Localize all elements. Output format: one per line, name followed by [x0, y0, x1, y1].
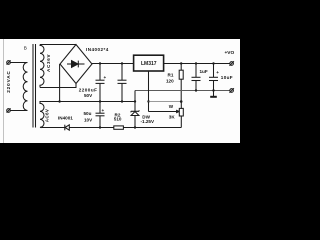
node: 0.1uF tap on + rail [121, 62, 123, 64]
black letterbox background [0, 0, 240, 180]
transformer secondary winding AC6V [40, 102, 44, 128]
terminal VO+ [230, 61, 234, 66]
wire: ADJ to R1 bottom [149, 101, 182, 103]
svg-text:IN4001: IN4001 [58, 115, 73, 120]
node: bridge minus on ground rail [58, 100, 60, 102]
svg-text:R1: R1 [168, 73, 174, 78]
svg-text:+: + [104, 75, 107, 80]
bridge rectifier diamond [60, 45, 92, 84]
node: caps junction on ground rail [99, 100, 101, 102]
wire: top terminal to primary [10, 62, 27, 64]
svg-text:1uF: 1uF [200, 69, 208, 74]
svg-text:AC6V: AC6V [45, 109, 50, 122]
transformer core [32, 44, 34, 128]
return rail (gnd) to VO- terminal [135, 90, 230, 92]
input terminal top (220VAC) [7, 60, 11, 64]
svg-text:+VO: +VO [225, 50, 235, 56]
node: ADJ branch [147, 100, 149, 102]
node: R1 tap [180, 62, 182, 64]
svg-text:AC36V: AC36V [46, 54, 51, 72]
wire: bridge minus (left corner) down to ground rail [59, 64, 61, 102]
svg-text:10V: 10V [84, 117, 93, 122]
ground symbol under 10uF [210, 91, 217, 97]
zener diode DW [131, 102, 139, 128]
diode D1 IN4001 [65, 125, 70, 131]
capacitor 10uF leads [213, 64, 215, 78]
resistor R1 body [179, 70, 183, 79]
terminal VO- [230, 88, 234, 93]
wire: ADJ wiper to pot [149, 110, 180, 112]
wire: bridge plus (right corner) to LM317 input [92, 63, 134, 65]
svg-text:10uF: 10uF [221, 75, 233, 80]
resistor R1 leads [180, 64, 182, 71]
transformer secondary winding AC36V [40, 45, 44, 88]
svg-text:510: 510 [114, 117, 122, 122]
LM317 ADJ pin wire down [148, 71, 150, 111]
capacitor 0.1uF leads [121, 64, 123, 81]
svg-text:W: W [169, 104, 174, 109]
bridge inner diode [67, 61, 85, 68]
svg-text:IN4002*4: IN4002*4 [86, 47, 109, 52]
labels [6, 45, 235, 124]
pot leads [180, 102, 182, 109]
capacitor 10uF plates [209, 76, 218, 78]
node: zener branch on ground rail [134, 100, 136, 102]
svg-text:+: + [102, 108, 105, 113]
capacitor 0.1uF plates [118, 79, 127, 81]
svg-text:+: + [216, 70, 219, 75]
capacitor 2200uF plates [96, 79, 105, 81]
svg-text:220VAC: 220VAC [6, 70, 11, 92]
svg-text:50V: 50V [84, 93, 93, 98]
resistor R2 body [114, 126, 124, 129]
svg-text:120: 120 [166, 79, 174, 84]
ground rail left [41, 101, 135, 103]
node: 1uF bottom on return rail [195, 89, 197, 91]
capacitor 50uF plates [96, 112, 105, 114]
transformer T1 primary winding [23, 63, 27, 111]
node: 1uF tap [195, 62, 197, 64]
capacitor 1uF plates [192, 76, 201, 78]
node: 50uF bottom on negative wire [99, 126, 101, 128]
white schematic area [0, 39, 240, 143]
regulator U1 LM317 box [134, 55, 164, 71]
svg-text:-1.25V: -1.25V [141, 119, 155, 124]
potentiometer W body [179, 108, 183, 116]
capacitor 1uF leads [195, 64, 197, 78]
wire: zener vertical up to return rail [134, 91, 136, 102]
node: 10uF bottom on return rail [212, 89, 214, 91]
bottom negative wire [41, 127, 181, 129]
wire: LM317 output to VO+ terminal [164, 63, 230, 65]
input terminal bottom (220VAC) [7, 108, 11, 112]
node: 0.1uF bottom on ground rail [121, 100, 123, 102]
svg-text:3K: 3K [169, 115, 176, 120]
node: R1 bottom / pot top [180, 100, 183, 103]
node: zener bottom on negative wire [134, 126, 136, 128]
wire: AC36V top to bridge top corner [40, 44, 76, 46]
capacitor 2200uF leads [99, 64, 101, 81]
svg-text:2200uF: 2200uF [79, 87, 98, 92]
svg-text:B: B [24, 45, 27, 50]
node: 2200uF tap on + rail [99, 62, 101, 64]
wire: bottom terminal to primary [10, 110, 27, 112]
svg-text:50u: 50u [84, 111, 92, 116]
capacitor 50uF leads [99, 102, 101, 114]
wire: AC36V bottom jog to bridge bottom corner [40, 84, 76, 88]
svg-text:LM317: LM317 [141, 61, 157, 67]
node: 10uF tap [212, 62, 214, 64]
left scan border line [3, 39, 5, 143]
